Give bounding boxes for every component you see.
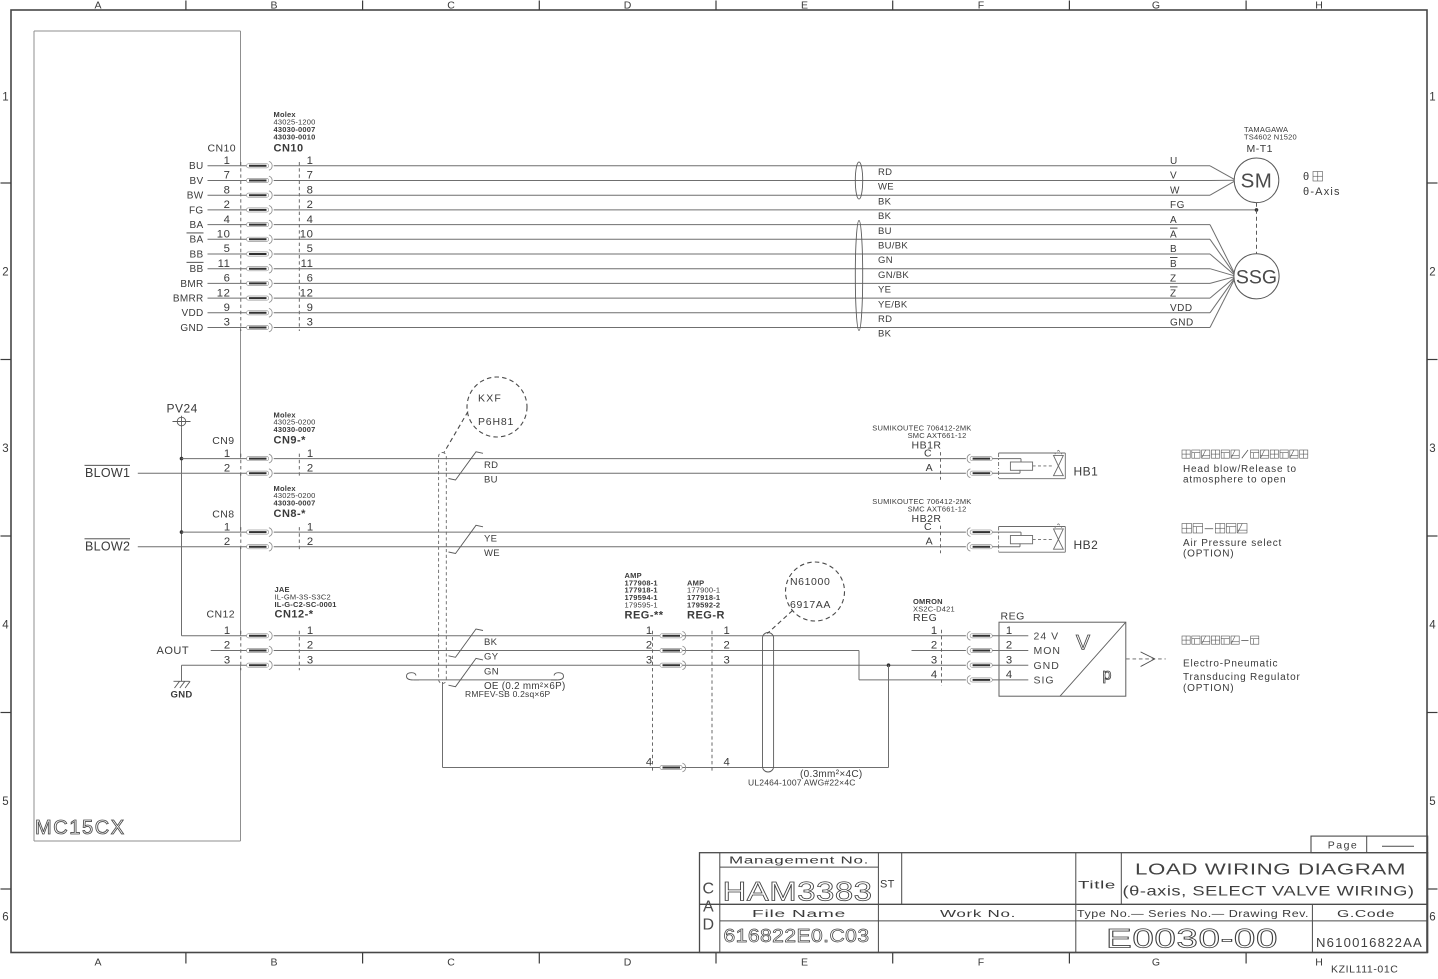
svg-text:10: 10 xyxy=(217,229,231,241)
svg-text:N610016822AA: N610016822AA xyxy=(1316,935,1423,950)
svg-text:10: 10 xyxy=(300,229,314,241)
svg-text:(OPTION): (OPTION) xyxy=(1183,549,1234,560)
svg-text:REG-R: REG-R xyxy=(687,610,725,622)
svg-text:HB1: HB1 xyxy=(1074,465,1099,479)
svg-text:V: V xyxy=(1170,171,1177,182)
svg-text:BV: BV xyxy=(190,176,204,187)
svg-text:179592-2: 179592-2 xyxy=(687,601,720,610)
svg-text:BK: BK xyxy=(484,637,498,648)
svg-text:1: 1 xyxy=(1006,625,1013,637)
svg-text:MC15CX: MC15CX xyxy=(35,817,126,839)
svg-text:BMRR: BMRR xyxy=(173,294,204,305)
wire CN9-1 to HB1R C (RD) xyxy=(274,458,966,460)
leads converging to motor SM xyxy=(1210,166,1236,181)
svg-text:YE/BK: YE/BK xyxy=(878,299,908,310)
svg-text:E: E xyxy=(801,0,808,12)
svg-text:Z: Z xyxy=(1170,274,1177,285)
svg-text:HB2: HB2 xyxy=(1074,538,1099,552)
svg-text:BLOW2: BLOW2 xyxy=(85,539,130,553)
wire CN12-2 GY xyxy=(274,650,859,652)
leads converging to encoder SSG xyxy=(1210,225,1236,277)
svg-text:GND: GND xyxy=(180,323,203,334)
svg-text:8: 8 xyxy=(224,184,231,196)
svg-text:CN12: CN12 xyxy=(207,609,235,621)
title block frame xyxy=(700,853,1428,953)
svg-text:CN9: CN9 xyxy=(212,435,234,447)
svg-text:3: 3 xyxy=(724,654,731,666)
svg-text:2: 2 xyxy=(224,199,231,211)
svg-text:SSG: SSG xyxy=(1236,266,1277,288)
svg-text:CN12-*: CN12-* xyxy=(275,609,314,621)
cable callout balloon KXF P6H81 xyxy=(467,377,527,437)
svg-text:C: C xyxy=(703,881,715,898)
svg-text:KZIL111-01C: KZIL111-01C xyxy=(1331,963,1399,974)
svg-text:WE: WE xyxy=(878,182,894,193)
svg-text:θ: θ xyxy=(1303,171,1309,183)
svg-text:G.Code: G.Code xyxy=(1337,909,1395,920)
page number box xyxy=(1311,836,1428,853)
svg-text:2: 2 xyxy=(224,640,231,652)
svg-text:616822E0.C03: 616822E0.C03 xyxy=(724,926,870,946)
wire CN8-2 to HB2R A (WE) xyxy=(274,546,966,548)
svg-text:9: 9 xyxy=(224,302,231,314)
svg-text:GN: GN xyxy=(878,255,893,266)
svg-text:1: 1 xyxy=(931,625,938,637)
svg-text:C: C xyxy=(447,0,455,12)
svg-text:4: 4 xyxy=(2,620,9,632)
svg-text:B: B xyxy=(1170,259,1177,270)
svg-text:BA: BA xyxy=(190,220,204,231)
svg-text:1: 1 xyxy=(224,448,231,460)
svg-text:Head blow/Release to: Head blow/Release to xyxy=(1183,464,1297,475)
svg-text:PV24: PV24 xyxy=(167,402,198,416)
svg-text:B: B xyxy=(270,0,277,12)
svg-text:U: U xyxy=(1170,156,1178,167)
svg-text:2: 2 xyxy=(1429,267,1435,279)
svg-text:1: 1 xyxy=(724,625,731,637)
svg-text:CN10: CN10 xyxy=(208,143,236,155)
junction dot GN / cable wire 4 xyxy=(887,663,891,667)
svg-text:A: A xyxy=(926,462,933,474)
annotation head blow (Japanese) xyxy=(1182,450,1190,458)
svg-text:BU/BK: BU/BK xyxy=(878,241,908,252)
connector REG-** contacts xyxy=(660,634,682,638)
spare conductor OE coiled xyxy=(407,673,420,680)
svg-text:BA: BA xyxy=(190,235,204,246)
svg-text:File Name: File Name xyxy=(752,909,846,920)
junction dot PV24 to CN8-1 xyxy=(180,530,184,534)
connector REG boundary dashed line xyxy=(941,630,943,686)
svg-text:A: A xyxy=(94,0,101,12)
leader line to cable bundle xyxy=(444,412,468,453)
svg-text:BK: BK xyxy=(878,211,892,222)
svg-text:MON: MON xyxy=(1034,645,1062,657)
svg-text:p: p xyxy=(1103,667,1112,684)
svg-text:2: 2 xyxy=(724,640,731,652)
svg-text:4: 4 xyxy=(1429,620,1436,632)
svg-text:1: 1 xyxy=(307,521,314,533)
svg-text:5: 5 xyxy=(224,243,231,255)
svg-text:F: F xyxy=(978,0,984,12)
svg-text:1: 1 xyxy=(307,625,314,637)
pneumatic output arrow xyxy=(1126,658,1166,660)
svg-text:1: 1 xyxy=(307,448,314,460)
svg-text:FG: FG xyxy=(1170,200,1185,211)
wire BLOW2 to CN8 pin 2 xyxy=(138,546,247,548)
svg-text:1: 1 xyxy=(1429,92,1435,104)
svg-text:LOAD WIRING DIAGRAM: LOAD WIRING DIAGRAM xyxy=(1135,862,1406,879)
connector HB2R contacts xyxy=(967,528,970,537)
wire REG MON stub xyxy=(912,650,966,652)
svg-text:D: D xyxy=(624,956,632,968)
svg-text:GND: GND xyxy=(1170,318,1194,329)
svg-text:1: 1 xyxy=(224,625,231,637)
svg-text:YE: YE xyxy=(878,285,891,296)
motor symbol SM (M-T1) xyxy=(1234,158,1279,203)
svg-text:6: 6 xyxy=(2,912,8,924)
svg-text:HAM3383: HAM3383 xyxy=(723,877,873,907)
svg-text:B: B xyxy=(270,956,277,968)
junction dot PV24 to CN9-1 xyxy=(180,457,184,461)
svg-text:M-T1: M-T1 xyxy=(1247,143,1274,155)
cable tie oval, encoder cable xyxy=(855,221,862,331)
svg-text:E0030-00: E0030-00 xyxy=(1106,923,1278,953)
wire break marks CN9 cable xyxy=(449,452,484,480)
svg-text:WE: WE xyxy=(484,548,500,559)
svg-text:43030-0010: 43030-0010 xyxy=(274,133,316,142)
svg-text:Title: Title xyxy=(1078,879,1116,891)
svg-text:3: 3 xyxy=(1006,654,1013,666)
svg-text:BB: BB xyxy=(190,249,204,260)
net BLOW2 label xyxy=(85,538,131,540)
connector CN8 boundary dashed lines xyxy=(240,527,242,552)
svg-text:2: 2 xyxy=(307,536,314,548)
svg-text:4: 4 xyxy=(307,214,314,226)
encoder symbol SSG xyxy=(1234,254,1279,299)
svg-text:BK: BK xyxy=(878,329,892,340)
wire CN9-2 to HB1R A (BU) xyxy=(274,472,966,474)
svg-text:7: 7 xyxy=(307,170,314,182)
svg-text:E: E xyxy=(801,956,808,968)
svg-text:RD: RD xyxy=(878,314,892,325)
svg-text:AOUT: AOUT xyxy=(157,645,190,657)
svg-text:Page: Page xyxy=(1328,839,1359,851)
svg-text:4: 4 xyxy=(224,214,231,226)
wire AOUT to CN12 pin 2 xyxy=(211,650,247,652)
svg-text:43030-0007: 43030-0007 xyxy=(274,425,316,434)
svg-text:GN: GN xyxy=(484,666,499,677)
svg-text:CN9-*: CN9-* xyxy=(274,435,307,447)
connector HB1R contacts xyxy=(967,454,970,463)
svg-text:(OPTION): (OPTION) xyxy=(1183,683,1234,694)
wire BLOW1 to CN9 pin 2 xyxy=(138,472,247,474)
svg-text:G: G xyxy=(1152,0,1160,12)
svg-text:7: 7 xyxy=(224,170,231,182)
svg-text:(θ-axis, SELECT VALVE WIRING): (θ-axis, SELECT VALVE WIRING) xyxy=(1123,882,1415,898)
svg-text:Z: Z xyxy=(1170,288,1177,299)
svg-text:BU: BU xyxy=(878,226,892,237)
svg-text:11: 11 xyxy=(218,258,231,270)
svg-text:Air Pressure select: Air Pressure select xyxy=(1183,538,1282,549)
svg-text:3: 3 xyxy=(224,317,231,329)
svg-text:RD: RD xyxy=(484,460,498,471)
wire cable conductor 4 xyxy=(442,682,444,768)
svg-text:G: G xyxy=(1152,956,1160,968)
svg-text:W: W xyxy=(1170,185,1180,196)
wire CN8-1 to HB2R C (YE) xyxy=(274,531,966,533)
svg-text:A: A xyxy=(1170,215,1177,226)
connector REG-** / REG-R boundary dashed lines xyxy=(652,631,654,772)
connector CN8 contacts xyxy=(247,530,269,534)
svg-text:UL2464-1007 AWG#22×4C: UL2464-1007 AWG#22×4C xyxy=(748,778,856,788)
svg-text:YE: YE xyxy=(484,533,497,544)
svg-text:KXF: KXF xyxy=(478,393,502,405)
svg-text:REG: REG xyxy=(1001,611,1025,623)
junction dot FG to motor frame xyxy=(1255,208,1259,212)
svg-text:A: A xyxy=(926,536,933,548)
connector CN12 boundary dashed lines xyxy=(240,631,242,670)
svg-text:6: 6 xyxy=(224,273,231,285)
svg-text:FG: FG xyxy=(189,205,204,216)
svg-text:12: 12 xyxy=(217,287,231,299)
svg-text:GN/BK: GN/BK xyxy=(878,270,909,281)
svg-text:VDD: VDD xyxy=(1170,303,1193,314)
svg-text:BB: BB xyxy=(190,264,204,275)
wire PV24 rail corner to CN12 pin 1 xyxy=(182,635,247,637)
svg-text:BU: BU xyxy=(189,161,204,172)
ground symbol GND (chassis) xyxy=(174,680,190,682)
svg-text:B: B xyxy=(1170,244,1177,255)
svg-text:43030-0007: 43030-0007 xyxy=(274,498,316,507)
wire PV24 supply rail xyxy=(181,427,183,636)
controller box MC15CX xyxy=(34,30,241,32)
svg-text:5: 5 xyxy=(2,796,8,808)
svg-text:F: F xyxy=(978,956,984,968)
cable callout balloon N61000 6917AA xyxy=(786,562,845,621)
svg-text:C: C xyxy=(447,956,455,968)
svg-text:CN10: CN10 xyxy=(274,143,304,155)
svg-text:BU: BU xyxy=(484,474,498,485)
svg-text:6: 6 xyxy=(307,273,314,285)
svg-text:1: 1 xyxy=(224,155,231,167)
wire CN12-1 BK to REG 24V xyxy=(274,635,966,637)
svg-text:11: 11 xyxy=(301,258,314,270)
svg-text:2: 2 xyxy=(307,199,314,211)
leader line to 4C cable xyxy=(767,611,792,634)
svg-text:CN8-*: CN8-* xyxy=(274,508,307,520)
connector REG contacts xyxy=(967,631,970,640)
svg-text:9: 9 xyxy=(307,302,314,314)
svg-text:1: 1 xyxy=(307,155,314,167)
annotation air pressure (Japanese) xyxy=(1182,524,1192,534)
svg-text:4: 4 xyxy=(931,669,938,681)
svg-text:A: A xyxy=(94,956,101,968)
svg-text:P6H81: P6H81 xyxy=(478,416,514,428)
svg-text:1: 1 xyxy=(224,521,231,533)
svg-text:C: C xyxy=(924,521,932,533)
connector CN12 contacts xyxy=(247,634,269,638)
svg-text:GND: GND xyxy=(171,690,193,701)
svg-text:Management No.: Management No. xyxy=(729,855,869,866)
svg-text:IL-G-C2-SC-0001: IL-G-C2-SC-0001 xyxy=(275,600,337,609)
cable tie capsule 4C cable xyxy=(763,633,774,773)
svg-text:6: 6 xyxy=(1429,912,1435,924)
svg-text:3: 3 xyxy=(2,443,8,455)
solenoid valve HB1 xyxy=(999,452,1066,454)
svg-text:179595-1: 179595-1 xyxy=(625,601,658,610)
svg-text:RD: RD xyxy=(878,167,892,178)
wire CN12 pin 3 to GND xyxy=(182,664,247,666)
svg-text:Type No.— Series No.— Drawing: Type No.— Series No.— Drawing Rev. xyxy=(1077,909,1309,920)
svg-text:2: 2 xyxy=(1006,640,1013,652)
annotation regulator (Japanese) xyxy=(1182,636,1190,644)
svg-text:3: 3 xyxy=(307,654,314,666)
svg-text:4: 4 xyxy=(1006,669,1013,681)
svg-text:GY: GY xyxy=(484,652,499,663)
svg-text:2: 2 xyxy=(646,640,653,652)
svg-text:GND: GND xyxy=(1034,660,1060,672)
svg-text:3: 3 xyxy=(646,654,653,666)
svg-text:2: 2 xyxy=(224,462,231,474)
connector CN10 boundary dashed lines xyxy=(240,162,242,331)
svg-text:TS4602 N1520: TS4602 N1520 xyxy=(1244,132,1297,141)
svg-text:4: 4 xyxy=(724,757,731,769)
svg-text:Work No.: Work No. xyxy=(940,909,1016,920)
svg-text:D: D xyxy=(703,917,715,934)
svg-text:A: A xyxy=(1170,230,1177,241)
svg-text:5: 5 xyxy=(1429,796,1435,808)
wire break marks CN8 cable xyxy=(449,525,484,553)
svg-text:H: H xyxy=(1315,0,1323,12)
svg-text:atmosphere to open: atmosphere to open xyxy=(1183,474,1286,485)
svg-text:C: C xyxy=(924,448,932,460)
svg-text:N61000: N61000 xyxy=(790,576,830,588)
svg-text:SIG: SIG xyxy=(1034,675,1055,687)
svg-text:BMR: BMR xyxy=(180,279,203,290)
svg-text:2: 2 xyxy=(931,640,938,652)
wire CN12-3 GN to REG GND xyxy=(274,664,966,666)
svg-text:θ-Axis: θ-Axis xyxy=(1303,186,1341,198)
svg-text:V: V xyxy=(1076,632,1090,655)
wire break marks CN12 cable xyxy=(449,629,484,657)
svg-text:24 V: 24 V xyxy=(1034,631,1060,643)
wire PV24 to CN9 pin 1 xyxy=(182,458,247,460)
wire GY step down to SIG xyxy=(858,651,860,680)
svg-text:D: D xyxy=(624,0,632,12)
svg-text:3: 3 xyxy=(307,317,314,329)
svg-text:A: A xyxy=(703,899,714,916)
svg-text:REG: REG xyxy=(913,612,937,624)
svg-text:5: 5 xyxy=(307,243,314,255)
svg-text:BW: BW xyxy=(187,191,204,202)
wire PV24 to CN8 pin 1 xyxy=(182,531,247,533)
svg-text:3: 3 xyxy=(931,654,938,666)
svg-text:BLOW1: BLOW1 xyxy=(85,466,130,480)
svg-text:2: 2 xyxy=(224,536,231,548)
svg-text:CN8: CN8 xyxy=(212,509,234,521)
net BLOW1 label xyxy=(85,464,131,466)
svg-text:ST: ST xyxy=(880,879,895,891)
solenoid valve HB2 xyxy=(999,526,1066,528)
cable tie oval, motor power cable U/V/W xyxy=(855,162,862,199)
connector HB1R boundary dashed line xyxy=(940,452,942,480)
connector HB2R boundary dashed line xyxy=(940,526,942,554)
svg-text:2: 2 xyxy=(307,640,314,652)
svg-text:3: 3 xyxy=(1429,443,1435,455)
cable bundle KXF P6H81 (dashed capsule) xyxy=(439,453,447,684)
svg-text:3: 3 xyxy=(224,654,231,666)
svg-text:REG-**: REG-** xyxy=(625,610,664,622)
svg-text:2: 2 xyxy=(2,267,8,279)
svg-text:BK: BK xyxy=(878,196,892,207)
dashed link motor SM to encoder SSG xyxy=(1256,203,1258,254)
svg-text:12: 12 xyxy=(300,287,314,299)
svg-text:1: 1 xyxy=(2,92,8,104)
svg-text:VDD: VDD xyxy=(181,308,203,319)
svg-text:Electro-Pneumatic: Electro-Pneumatic xyxy=(1183,658,1278,669)
svg-text:Transducing Regulator: Transducing Regulator xyxy=(1183,672,1301,683)
connector CN9 boundary dashed lines xyxy=(240,454,242,479)
svg-text:8: 8 xyxy=(307,184,314,196)
svg-text:H: H xyxy=(1315,956,1323,968)
svg-text:1: 1 xyxy=(646,625,653,637)
svg-text:6917AA: 6917AA xyxy=(790,599,831,611)
svg-text:RMFEV-SB 0.2sq×6P: RMFEV-SB 0.2sq×6P xyxy=(465,689,550,699)
connector CN9 contacts xyxy=(247,457,269,461)
svg-text:4: 4 xyxy=(646,757,653,769)
svg-text:2: 2 xyxy=(307,462,314,474)
svg-text:SM: SM xyxy=(1241,170,1273,193)
